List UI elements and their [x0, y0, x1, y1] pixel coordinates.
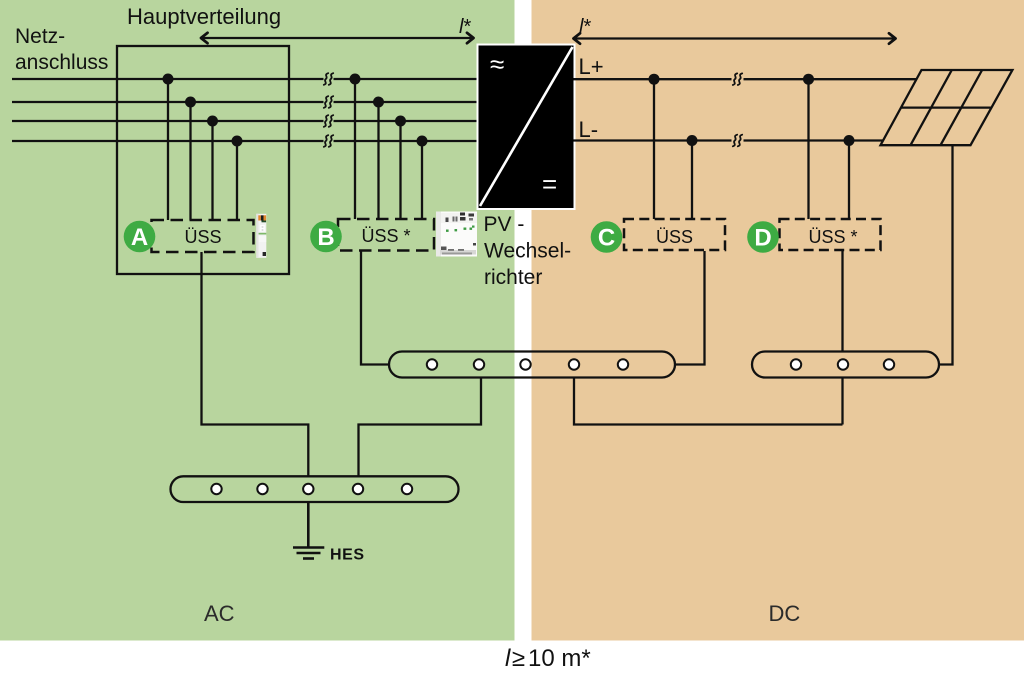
break symbol AC N [324, 135, 333, 147]
break symbol AC L2 [324, 96, 333, 108]
wire drops to SPD D [809, 79, 850, 219]
svg-text:Hauptverteilung: Hauptverteilung [127, 4, 281, 29]
node group A junction dots [163, 74, 243, 147]
svg-text:ÜSS *: ÜSS * [361, 226, 410, 246]
svg-text:L+: L+ [579, 54, 604, 79]
device photo B [436, 212, 477, 257]
SPD box D (dashed) [780, 219, 881, 250]
wire SPD B to AC bonding bar [361, 251, 389, 365]
marker circle D [747, 221, 779, 253]
AC length arrow l* [201, 37, 474, 39]
node group D junction dots [803, 74, 855, 146]
wire bar-to-bar link [574, 378, 843, 425]
node group C junction dots [649, 74, 698, 146]
break symbol DC L+ [733, 73, 742, 85]
svg-text:AC: AC [204, 601, 235, 626]
svg-text:B: B [317, 224, 334, 251]
DC zone background [532, 0, 1024, 641]
AC bonding busbar [389, 352, 675, 378]
break symbol AC L1 [324, 73, 333, 85]
svg-text:ÜSS *: ÜSS * [808, 227, 857, 247]
svg-text:DC: DC [769, 601, 801, 626]
wire SPD D through bar to link [841, 251, 843, 425]
wire AC line L3 [12, 120, 479, 122]
svg-text:anschluss: anschluss [15, 51, 108, 74]
svg-text:Wechsel-: Wechsel- [484, 240, 571, 263]
wire AC busbar to earth bar [359, 378, 482, 477]
svg-text:A: A [131, 224, 148, 251]
wire PV panel to DC busbar [939, 145, 953, 364]
marker circle B [310, 221, 342, 253]
wire drops to SPD B [355, 79, 422, 219]
wire AC line L1 [12, 78, 479, 80]
SPD box C (dashed) [624, 219, 725, 250]
wire drops to SPD C [654, 79, 692, 219]
wire drops to SPD A [168, 79, 237, 220]
wire AC line L2 [12, 101, 479, 103]
svg-text:l*: l* [579, 16, 591, 38]
PV panel [881, 70, 1013, 145]
break symbol DC L- [733, 135, 742, 147]
marker circle A [124, 221, 156, 253]
device photo A [256, 214, 266, 258]
wire DC L+ [574, 78, 917, 80]
svg-text:L-: L- [579, 117, 599, 142]
ground HES [293, 502, 324, 559]
DC length arrow l* [574, 37, 896, 39]
PV inverter block [477, 44, 576, 211]
svg-text:ÜSS: ÜSS [656, 227, 693, 247]
AC zone background [0, 0, 515, 641]
Hauptverteilung enclosure box [117, 46, 289, 274]
break symbol AC L3 [324, 115, 333, 127]
main earth bar [171, 476, 459, 502]
svg-text:=: = [542, 169, 557, 199]
wire AC line N [12, 140, 479, 142]
wire SPD A to earth bar [202, 252, 309, 476]
marker circle C [591, 221, 623, 253]
svg-text:D: D [754, 225, 771, 252]
svg-text:l≥10 m*: l≥10 m* [505, 645, 591, 672]
SPD box A (dashed) [152, 220, 254, 252]
svg-text:richter: richter [484, 266, 542, 289]
svg-text:Netz-: Netz- [15, 25, 65, 48]
svg-text:l*: l* [459, 16, 471, 38]
SPD box B (dashed) [338, 219, 434, 251]
svg-text:C: C [598, 225, 615, 252]
DC bonding busbar [752, 352, 939, 378]
svg-text:≈: ≈ [490, 49, 504, 79]
svg-text:ÜSS: ÜSS [184, 227, 221, 247]
svg-text:HES: HES [330, 547, 365, 564]
wire SPD C to DC bonding bar [675, 251, 705, 365]
wire DC L- [574, 139, 884, 141]
node group B junction dots [350, 74, 428, 147]
svg-text:PV -: PV - [484, 213, 525, 236]
